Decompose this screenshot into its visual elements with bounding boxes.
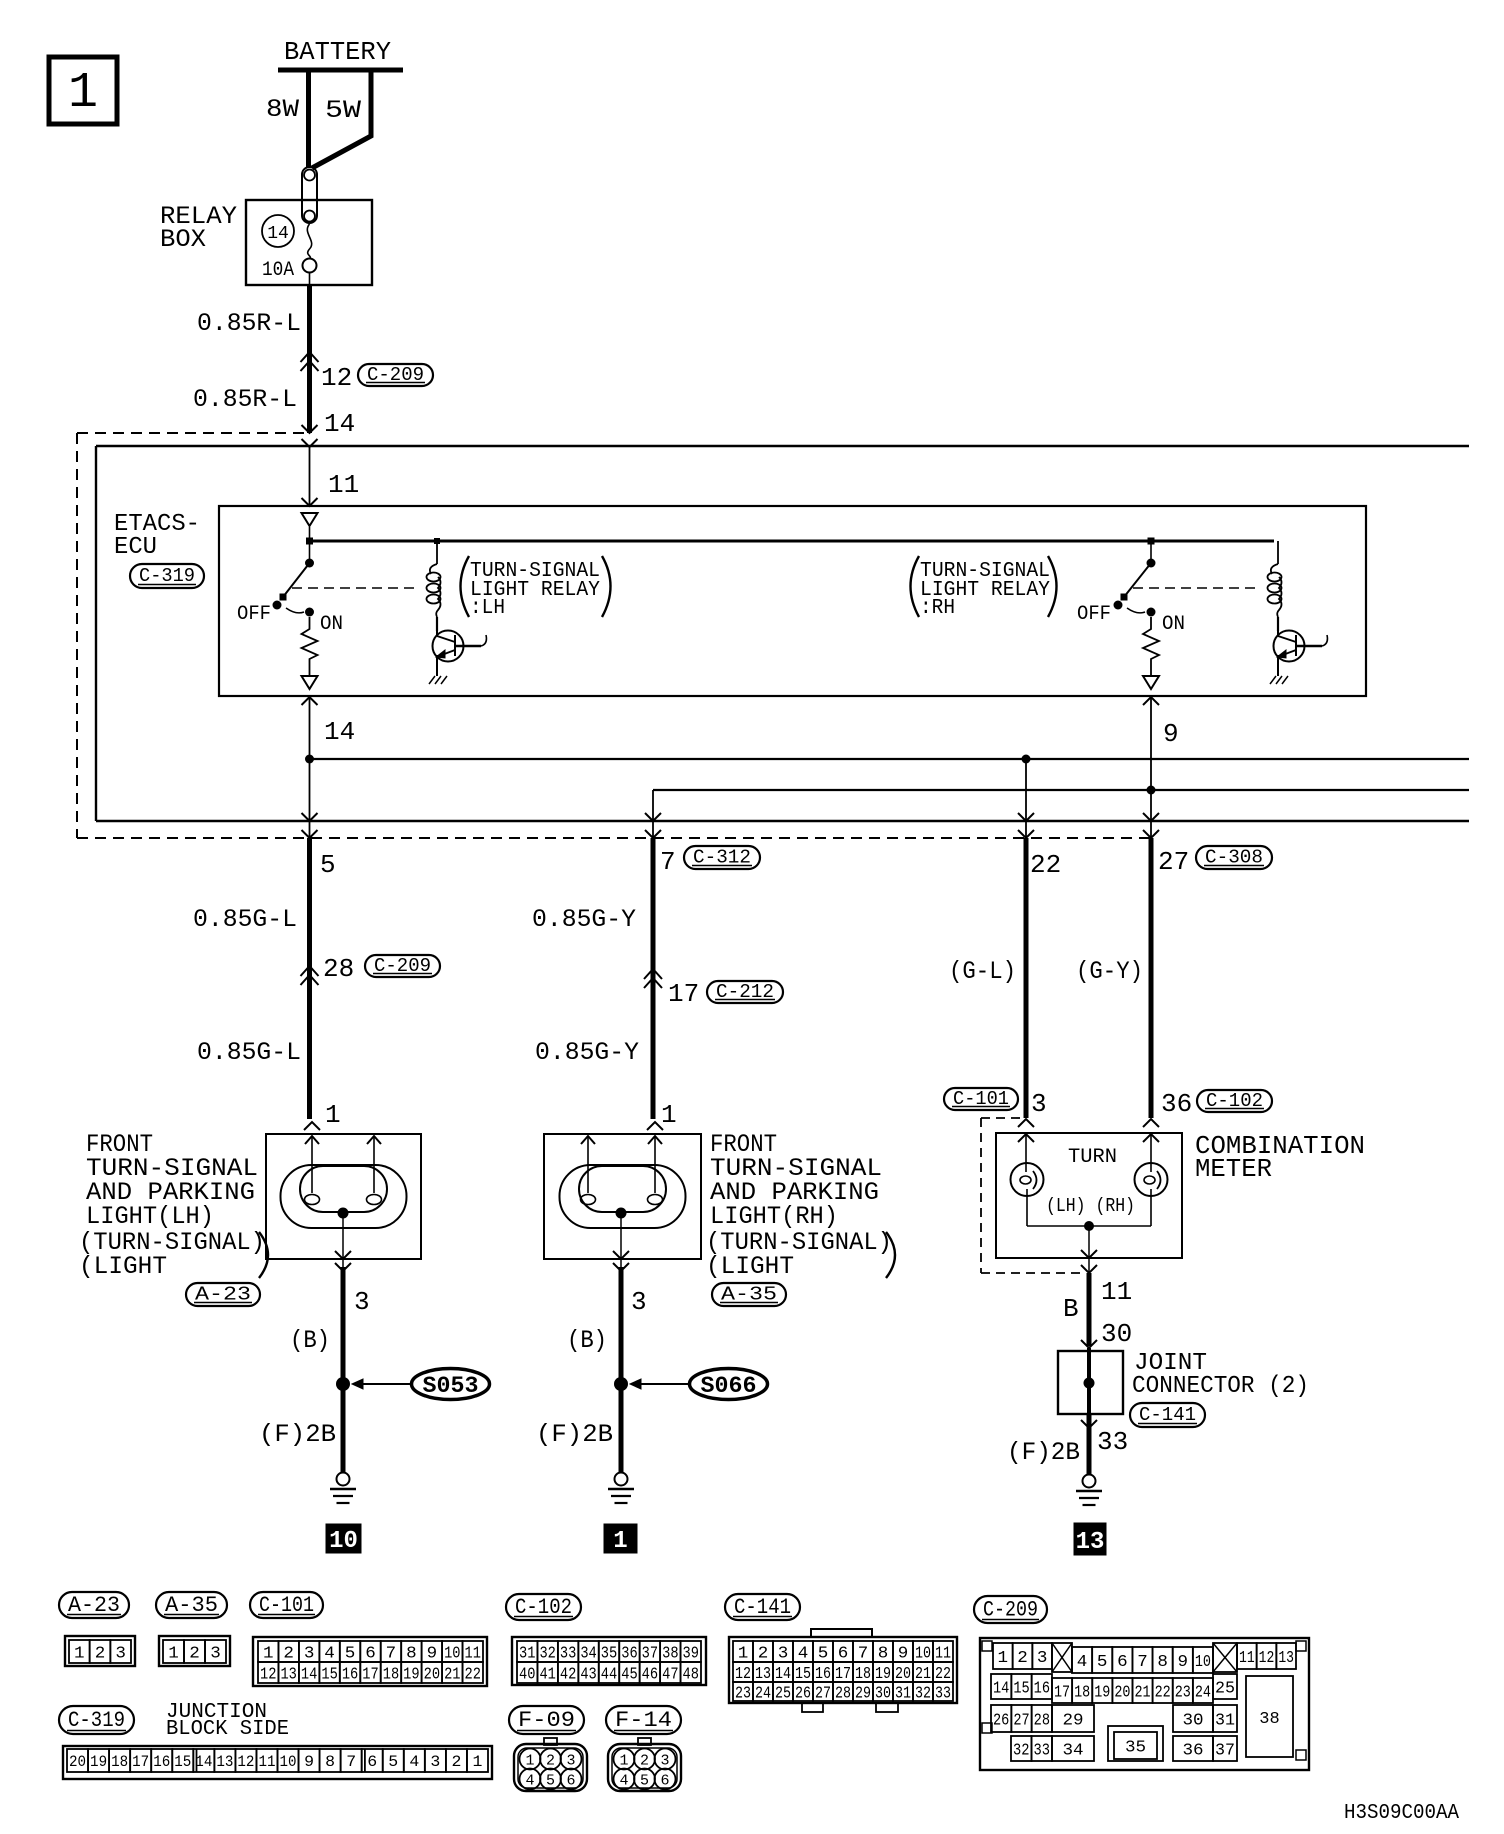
svg-text:37: 37 (642, 1644, 658, 1663)
junction dot bus RH (1147, 786, 1156, 795)
connector pinout C-141 (729, 1637, 957, 1703)
svg-text:31: 31 (519, 1644, 535, 1663)
junction dot bus LH (305, 755, 314, 764)
svg-text:7: 7 (1137, 1653, 1148, 1672)
transistor RH driver (1274, 631, 1305, 662)
svg-text:7: 7 (386, 1644, 397, 1663)
svg-text:29: 29 (1062, 1711, 1083, 1730)
svg-text:5: 5 (1097, 1653, 1108, 1672)
svg-text:17: 17 (835, 1665, 851, 1684)
svg-text:33: 33 (935, 1684, 951, 1703)
svg-text:1: 1 (325, 1100, 341, 1130)
svg-text:1: 1 (613, 1528, 627, 1555)
svg-text:1: 1 (74, 1644, 85, 1663)
wire 5W from battery (312, 70, 371, 168)
svg-text:10: 10 (1195, 1653, 1211, 1672)
page number box 1 (49, 57, 117, 124)
svg-text:BLOCK SIDE: BLOCK SIDE (166, 1718, 289, 1741)
svg-text:19: 19 (90, 1753, 107, 1771)
connector pinout C-209 (980, 1638, 1309, 1770)
svg-text:23: 23 (1175, 1683, 1191, 1702)
svg-text:27: 27 (1013, 1711, 1029, 1730)
inline connector chevrons C-209 pin 12 (301, 352, 319, 362)
svg-text:6: 6 (838, 1644, 849, 1663)
arrow pin 9 up (1143, 697, 1159, 705)
fuse element 10A (307, 224, 311, 259)
hollow triangle pin 11 (302, 513, 318, 526)
svg-text:35: 35 (1125, 1738, 1146, 1757)
svg-text:15: 15 (321, 1665, 337, 1684)
svg-text:12: 12 (1259, 1649, 1275, 1668)
front turn-signal and parking light RH (544, 1134, 701, 1259)
ETACS solid box bottom (96, 820, 1469, 822)
svg-text:28: 28 (323, 954, 354, 984)
svg-text:(LH) (RH): (LH) (RH) (1046, 1195, 1135, 1217)
svg-text:1: 1 (661, 1100, 677, 1130)
svg-text:3: 3 (566, 1753, 575, 1770)
LH flasher switch (309, 541, 311, 563)
svg-text:22: 22 (1030, 850, 1061, 880)
connector capsule C-319 (130, 564, 204, 588)
svg-text:36: 36 (1161, 1089, 1192, 1119)
svg-text:(LIGHT: (LIGHT (79, 1252, 167, 1281)
svg-text:4: 4 (324, 1644, 335, 1663)
svg-text:27: 27 (1158, 847, 1189, 877)
wire pin 7 drop (652, 790, 654, 838)
svg-text:32: 32 (539, 1644, 555, 1663)
relay coil RH (1277, 541, 1279, 564)
svg-text:(B): (B) (290, 1326, 330, 1355)
connector capsule C-101 (944, 1088, 1018, 1110)
svg-text:18: 18 (1074, 1683, 1090, 1702)
svg-text:(F)2B: (F)2B (536, 1420, 613, 1449)
svg-text:17: 17 (1054, 1683, 1070, 1702)
svg-text:12: 12 (237, 1753, 254, 1771)
svg-text:16: 16 (342, 1665, 358, 1684)
svg-text:1: 1 (998, 1649, 1009, 1668)
svg-text:3: 3 (210, 1644, 221, 1663)
svg-text:15: 15 (174, 1753, 191, 1771)
svg-text:18: 18 (383, 1665, 399, 1684)
svg-text:9: 9 (427, 1644, 438, 1663)
splice S053 (336, 1377, 350, 1391)
svg-text:44: 44 (601, 1665, 617, 1684)
connector capsule label C-102 (506, 1594, 581, 1620)
meter dashed boundary (980, 1118, 982, 1273)
transistor LH driver (433, 631, 464, 662)
relay box circle 14 (262, 215, 294, 247)
junction square RH switch (1148, 538, 1155, 545)
svg-text:1: 1 (619, 1753, 628, 1770)
svg-text:27: 27 (815, 1684, 831, 1703)
hollow triangle LH resistor (302, 676, 318, 689)
svg-text:19: 19 (403, 1665, 419, 1684)
svg-text:21: 21 (915, 1665, 931, 1684)
svg-text:3: 3 (354, 1287, 370, 1317)
svg-text:31: 31 (895, 1684, 911, 1703)
svg-text:B: B (1063, 1294, 1079, 1324)
svg-text:LIGHT(LH): LIGHT(LH) (86, 1202, 214, 1231)
svg-text:14: 14 (775, 1665, 791, 1684)
svg-text:8: 8 (1157, 1653, 1168, 1672)
arrow pin 14 up (302, 697, 318, 705)
connector capsule label C-101 (250, 1592, 323, 1618)
svg-text:12: 12 (735, 1665, 751, 1684)
svg-text:38: 38 (1259, 1710, 1279, 1729)
svg-text:37: 37 (1215, 1741, 1235, 1760)
svg-text:15: 15 (1013, 1679, 1029, 1698)
wire 0.85R-L relay box to C-209 (307, 285, 312, 433)
connector capsule label C-141 (725, 1594, 800, 1620)
relay coil LH (436, 541, 438, 564)
svg-text:39: 39 (683, 1644, 699, 1663)
ground meter circuit (1083, 1475, 1096, 1488)
svg-text:21: 21 (1135, 1683, 1151, 1702)
svg-text:3: 3 (430, 1753, 440, 1771)
svg-text:0.85R-L: 0.85R-L (193, 385, 297, 414)
svg-text:4: 4 (525, 1773, 534, 1790)
inline connector chevrons C-209 pin 28 (301, 966, 319, 976)
svg-text:2: 2 (283, 1644, 294, 1663)
junction square LH coil (434, 538, 440, 544)
svg-text:2: 2 (1017, 1649, 1028, 1668)
svg-text:6: 6 (367, 1753, 377, 1771)
joint connector wire (1087, 1348, 1091, 1414)
connector capsule label A-35 (156, 1592, 227, 1618)
arrow out of joint connector (1081, 1420, 1097, 1428)
svg-text:12: 12 (260, 1665, 276, 1684)
svg-text:35: 35 (601, 1644, 617, 1663)
connector capsule label F-09 (509, 1706, 584, 1734)
svg-text:3: 3 (660, 1753, 669, 1770)
svg-text:28: 28 (1034, 1711, 1050, 1730)
svg-text:3: 3 (304, 1644, 315, 1663)
fusible link terminals (302, 167, 317, 223)
svg-text:3: 3 (115, 1644, 126, 1663)
svg-text:(F)2B: (F)2B (1007, 1438, 1080, 1467)
svg-text:26: 26 (993, 1711, 1009, 1730)
wire pin 5 drop (309, 759, 311, 838)
svg-text:ON: ON (320, 613, 343, 636)
svg-text:ON: ON (1162, 613, 1185, 636)
internal supply line (310, 540, 1275, 543)
svg-text:METER: METER (1195, 1154, 1272, 1184)
svg-text:13: 13 (1076, 1529, 1105, 1556)
svg-text:(G-L): (G-L) (949, 957, 1016, 986)
svg-text:6: 6 (660, 1773, 669, 1790)
svg-text:2: 2 (640, 1753, 649, 1770)
svg-text:19: 19 (875, 1665, 891, 1684)
svg-text:0.85G-Y: 0.85G-Y (532, 905, 636, 934)
svg-text:0.85G-L: 0.85G-L (193, 905, 297, 934)
svg-text:20: 20 (424, 1665, 440, 1684)
svg-text:7: 7 (660, 847, 676, 877)
svg-text:2: 2 (451, 1753, 461, 1771)
connector capsule C-312 (684, 846, 760, 869)
arrow into ETACS at solid line (302, 439, 318, 447)
svg-text:8: 8 (878, 1644, 889, 1663)
svg-text:14: 14 (993, 1679, 1009, 1698)
svg-text:45: 45 (621, 1665, 637, 1684)
svg-text:19: 19 (1094, 1683, 1110, 1702)
svg-text:S066: S066 (701, 1373, 757, 1399)
svg-text:11: 11 (328, 470, 359, 500)
svg-text:5: 5 (388, 1753, 398, 1771)
connector capsule label A-23 (59, 1592, 129, 1618)
arrow into joint connector (1081, 1340, 1097, 1348)
svg-text:26: 26 (795, 1684, 811, 1703)
connector capsule C-102 (1197, 1090, 1272, 1112)
meter entry arrows pin 36 (1143, 1119, 1159, 1127)
svg-text:9: 9 (1178, 1653, 1189, 1672)
svg-text:40: 40 (519, 1665, 535, 1684)
connector capsule A-23 (186, 1283, 260, 1306)
svg-text:13: 13 (1278, 1649, 1294, 1668)
svg-text:30: 30 (875, 1684, 891, 1703)
svg-text:8: 8 (325, 1753, 335, 1771)
svg-text:3: 3 (1037, 1649, 1048, 1668)
svg-text:20: 20 (1114, 1683, 1130, 1702)
connector pinout F-09 (544, 1738, 557, 1745)
svg-text:25: 25 (1215, 1679, 1235, 1698)
svg-text:4: 4 (798, 1644, 809, 1663)
svg-text:CONNECTOR (2): CONNECTOR (2) (1132, 1373, 1309, 1400)
svg-text:C-319: C-319 (68, 1708, 125, 1733)
meter internal wires (1026, 1189, 1028, 1226)
svg-text:8W: 8W (266, 95, 299, 124)
connector pinout F-14 (638, 1738, 651, 1745)
svg-text:OFF: OFF (237, 603, 271, 626)
hollow triangle RH resistor (1143, 676, 1159, 689)
svg-text:34: 34 (580, 1644, 596, 1663)
svg-text:38: 38 (662, 1644, 678, 1663)
svg-text:33: 33 (560, 1644, 576, 1663)
svg-text:1: 1 (263, 1644, 274, 1663)
svg-text:31: 31 (1215, 1711, 1235, 1730)
connector capsule C-141 mid (1130, 1403, 1205, 1427)
svg-text:(F)2B: (F)2B (259, 1420, 336, 1449)
svg-text:22: 22 (465, 1665, 481, 1684)
resistor RH timing (1143, 617, 1159, 676)
svg-text:14: 14 (301, 1665, 317, 1684)
svg-text:11: 11 (258, 1753, 275, 1771)
svg-text:14: 14 (324, 717, 355, 747)
connector capsule label C-209 (974, 1596, 1047, 1623)
ground id 10 (326, 1524, 361, 1553)
arrow pin 11 (302, 498, 318, 506)
meter entry arrows pin 3 (1018, 1119, 1034, 1127)
ETACS dashed boundary bottom (77, 837, 1151, 839)
wire pin 22 drop (1025, 759, 1027, 838)
svg-text:24: 24 (1195, 1683, 1211, 1702)
svg-text:2: 2 (189, 1644, 200, 1663)
svg-text:3: 3 (631, 1287, 647, 1317)
inline connector chevrons C-212 pin 17 (644, 969, 662, 979)
svg-text:H3S09C00AA: H3S09C00AA (1344, 1802, 1459, 1825)
svg-text:1: 1 (525, 1753, 534, 1770)
wire pin 27 drop (1150, 790, 1152, 838)
ground id 1 (604, 1524, 637, 1553)
svg-text:41: 41 (539, 1665, 555, 1684)
svg-text:30: 30 (1101, 1319, 1132, 1349)
wire LH lamp to ground (341, 1267, 346, 1473)
svg-text:10: 10 (915, 1644, 931, 1663)
meter exit wire (1088, 1226, 1090, 1273)
bus line LH signal (310, 758, 1470, 760)
connector pinout C-319 (63, 1746, 492, 1779)
connector pinout C-102 (512, 1637, 706, 1685)
inner relay detail box (219, 506, 1366, 696)
svg-text:22: 22 (1155, 1683, 1171, 1702)
wire pin 11 into relay section (309, 447, 311, 506)
svg-text:30: 30 (1182, 1711, 1203, 1730)
wire joint connector to ground (1087, 1414, 1092, 1474)
svg-text::LH: :LH (470, 597, 505, 620)
svg-text:13: 13 (755, 1665, 771, 1684)
svg-text:11: 11 (1101, 1277, 1132, 1307)
connector capsule C-209 mid (365, 955, 440, 977)
svg-text:2: 2 (758, 1644, 769, 1663)
front turn-signal and parking light LH (266, 1134, 421, 1259)
arrow into ETACS at dashed line (302, 425, 318, 433)
svg-text:14: 14 (267, 224, 289, 244)
connector capsule C-308 (1196, 846, 1272, 869)
svg-text:11: 11 (465, 1644, 481, 1663)
svg-text:17: 17 (132, 1753, 149, 1771)
svg-text:TURN: TURN (1068, 1146, 1117, 1169)
svg-text:5: 5 (320, 850, 336, 880)
svg-text:5: 5 (546, 1773, 555, 1790)
svg-text:9: 9 (304, 1753, 314, 1771)
connector capsule label F-14 (606, 1706, 681, 1734)
svg-text:6: 6 (1117, 1653, 1128, 1672)
svg-text:1: 1 (473, 1753, 483, 1771)
svg-text:4: 4 (409, 1753, 419, 1771)
wire G-Y to combination meter (1149, 838, 1154, 1118)
svg-text:16: 16 (153, 1753, 170, 1771)
svg-text:10: 10 (329, 1528, 358, 1555)
svg-text:5: 5 (345, 1644, 356, 1663)
svg-text:48: 48 (683, 1665, 699, 1684)
connector pinout C-101 (253, 1637, 487, 1686)
svg-text:LIGHT(RH): LIGHT(RH) (710, 1202, 838, 1231)
svg-text:4: 4 (1077, 1653, 1088, 1672)
label turn-signal light relay LH (461, 556, 470, 617)
ETACS dashed boundary left (76, 433, 78, 838)
svg-text:(B): (B) (567, 1326, 607, 1355)
dashed link LH switch to coil (292, 587, 417, 589)
svg-text:7: 7 (858, 1644, 869, 1663)
connector pinout A-23 (65, 1636, 135, 1666)
svg-text::RH: :RH (920, 597, 955, 620)
svg-text:6: 6 (566, 1773, 575, 1790)
bus line RH signal (653, 789, 1469, 791)
ETACS solid box top (96, 445, 1469, 447)
svg-text:18: 18 (111, 1753, 128, 1771)
svg-text:OFF: OFF (1077, 603, 1111, 626)
relay box (246, 200, 372, 285)
svg-text:5: 5 (818, 1644, 829, 1663)
svg-text:16: 16 (1034, 1679, 1050, 1698)
resistor LH timing (302, 617, 318, 676)
meter bulb RH (1150, 1134, 1152, 1172)
svg-text:11: 11 (1239, 1649, 1255, 1668)
wire 8W from battery (306, 70, 311, 167)
svg-text:22: 22 (935, 1665, 951, 1684)
svg-text:BOX: BOX (160, 225, 206, 254)
svg-text:23: 23 (735, 1684, 751, 1703)
svg-text:1: 1 (168, 1644, 179, 1663)
wire pin 9 to bus (1150, 697, 1152, 790)
svg-text:42: 42 (560, 1665, 576, 1684)
connector capsule label C-319 (59, 1706, 134, 1734)
wire 0.85G-Y to RH lamp (651, 838, 656, 1119)
svg-text:32: 32 (1013, 1741, 1030, 1760)
svg-text:14: 14 (195, 1753, 212, 1771)
svg-text:14: 14 (324, 409, 355, 439)
svg-text:F-14: F-14 (615, 1708, 672, 1733)
svg-text:4: 4 (619, 1773, 628, 1790)
ETACS solid box left (95, 446, 97, 821)
svg-text:17: 17 (362, 1665, 378, 1684)
RH flasher switch (1150, 541, 1152, 563)
fuse terminal circle (303, 259, 317, 273)
svg-text:36: 36 (621, 1644, 637, 1663)
svg-text:1: 1 (68, 65, 98, 122)
svg-text:F-09: F-09 (518, 1708, 575, 1733)
dashed link RH switch to coil (1133, 587, 1258, 589)
svg-text:47: 47 (662, 1665, 678, 1684)
label turn-signal light relay RH (911, 556, 920, 617)
wire pin 14 to bus (309, 697, 311, 759)
svg-text:(LIGHT: (LIGHT (706, 1252, 794, 1281)
svg-text:33: 33 (1034, 1741, 1051, 1760)
wire RH lamp to ground (619, 1267, 624, 1473)
svg-text:20: 20 (69, 1753, 86, 1771)
svg-text:5: 5 (640, 1773, 649, 1790)
ground id 13 (1074, 1523, 1106, 1555)
ground RH lamp (615, 1473, 628, 1486)
svg-text:16: 16 (815, 1665, 831, 1684)
svg-text:6: 6 (365, 1644, 376, 1663)
svg-text:29: 29 (855, 1684, 871, 1703)
svg-text:S053: S053 (423, 1373, 479, 1399)
svg-text:32: 32 (915, 1684, 931, 1703)
svg-text:10: 10 (280, 1753, 297, 1771)
svg-text:10A: 10A (262, 259, 294, 282)
svg-text:15: 15 (795, 1665, 811, 1684)
ground LH lamp (337, 1473, 350, 1486)
connector capsule C-212 (707, 981, 783, 1003)
connector capsule C-209 top (358, 364, 433, 386)
battery positive bus (278, 68, 403, 73)
svg-text:11: 11 (935, 1644, 951, 1663)
svg-text:0.85R-L: 0.85R-L (197, 309, 301, 338)
svg-text:0.85G-Y: 0.85G-Y (535, 1038, 639, 1067)
svg-text:36: 36 (1182, 1741, 1203, 1760)
wire meter to joint connector (1087, 1273, 1092, 1346)
joint connector box (1058, 1351, 1123, 1414)
svg-text:7: 7 (346, 1753, 356, 1771)
svg-text:18: 18 (855, 1665, 871, 1684)
wire below fuse (309, 273, 311, 286)
svg-text:3: 3 (1031, 1089, 1047, 1119)
junction square LH switch (306, 538, 313, 545)
svg-text:20: 20 (895, 1665, 911, 1684)
svg-text:43: 43 (580, 1665, 596, 1684)
svg-text:46: 46 (642, 1665, 658, 1684)
svg-text:17: 17 (668, 979, 699, 1009)
